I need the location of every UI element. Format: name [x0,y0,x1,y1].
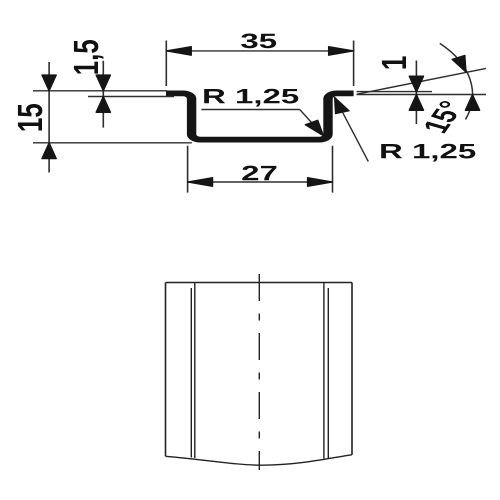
bottom surface extension line (left) [33,142,192,144]
dim 27 dimension line [188,181,333,183]
dim 27 left extension line [187,146,189,193]
leader R 1,25 upper-left: underline [201,109,299,111]
bottom view: left bend line inner [194,283,196,458]
label R 1,25 upper-left [204,89,298,107]
dim 15 dimension line [48,62,50,173]
dim 35 dimension line [166,50,353,52]
bottom view: center line (dash-dot) [258,274,260,470]
flange-end horizontal reference line A (short) [357,91,433,93]
dim 1,5 upper arrow [96,75,110,91]
bottom view: left bend line outer [190,288,192,458]
dim 27 left arrow [188,178,213,187]
leader R 1,25 upper-left: arrow [305,120,323,136]
dim 15 lower arrow [42,143,56,159]
angle arc upper arrow [452,55,466,72]
dim 35 right extension line [353,41,355,87]
leader R 1,25 lower-right: slanted line [343,113,369,162]
dim 1 lower arrow [409,95,423,111]
top surface extension line (left) [33,90,167,92]
dim 35 left arrow [166,47,191,56]
dim 35 right arrow [329,47,354,56]
bottom view: right bend line outer [327,288,329,459]
angle dimension arc [440,43,473,119]
dim 35 label [241,33,276,48]
dim 1 upper arrow [409,76,423,92]
dim 15 upper arrow [42,75,56,91]
leader R 1,25 lower-right: arrow [335,97,350,113]
15 degree slanted line [357,68,486,94]
leader R 1,25 upper-left: slanted line [300,110,312,124]
dim 35 left extension line [165,41,167,87]
dim 1,5 lower arrow [96,97,110,113]
dim 1 label [382,56,406,68]
dim 1,5 dimension line [102,61,104,128]
dim 27 right extension line [332,146,334,193]
dim 1 dimension line [415,61,417,125]
label 15 degrees [426,101,457,134]
dim 1,5 label [74,40,104,74]
dim 27 label [242,166,276,181]
bottom view: break (wavy) bottom edge [166,455,353,466]
label R 1,25 lower-right [381,144,475,162]
bottom view: outline top edge [166,282,353,284]
flange-end horizontal reference line B (long) [357,94,487,96]
rail profile (thick hat cross-section, drawn squashed) [166,93,354,139]
dim 27 right arrow [308,178,333,187]
bottom view: outline left edge [165,283,167,457]
flange underside extension line (left) [88,96,174,98]
angle arc lower arrow [465,95,479,111]
bottom view: outline right edge [351,283,353,455]
bottom view: right bend line inner [323,283,325,459]
dim 15 label [18,104,42,130]
